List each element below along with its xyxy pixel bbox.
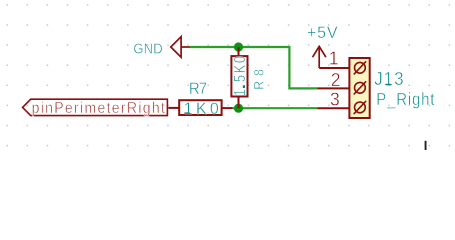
svg-text:1.5K0: 1.5K0 [232,56,249,96]
sheet border tick [425,141,427,150]
junction at R8 top [234,42,243,51]
power symbol GND arrow [171,37,190,58]
wire R7 right to pin3 [233,107,318,109]
svg-text:R7: R7 [189,80,207,98]
pin R8 bottom [238,97,240,109]
junction at R8 bottom [234,104,243,113]
hierarchical label shape [23,99,168,115]
screw terminal 3 [354,101,366,114]
pin R8 top [238,47,240,56]
grid dots [6,4,450,146]
pin R7 left [168,107,179,109]
svg-text:P_Right: P_Right [376,90,435,109]
svg-text:1: 1 [329,48,339,69]
svg-text:+5V: +5V [307,24,338,42]
svg-text:1K0: 1K0 [184,100,219,118]
wire GND row to corner down to pin2 [190,47,318,88]
pin 1 wire [319,67,348,69]
resistor R7 body [179,100,221,115]
power symbol +5V arrow [313,46,326,68]
screw terminal 2 [354,81,366,94]
svg-text:J13: J13 [374,69,404,90]
pin number 1 [330,63,337,65]
resistor R8 body [231,56,247,96]
pin 3 stub [318,107,349,109]
connector J13 body [349,58,369,118]
svg-text:2: 2 [331,69,341,90]
screw terminal 1 [354,61,366,74]
pin R7 right [222,107,233,109]
svg-text:pinPerimeterRight: pinPerimeterRight [32,99,166,117]
svg-text:GND: GND [133,39,162,56]
pin 2 stub [318,87,349,89]
svg-text:3: 3 [330,89,340,110]
